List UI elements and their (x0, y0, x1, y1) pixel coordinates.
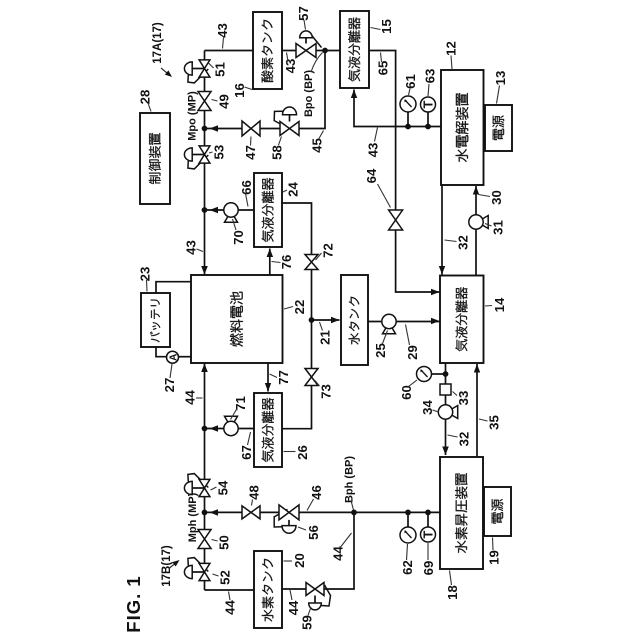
wire stem gauge 69 (427, 512, 429, 527)
arrow up at Mph junction (210, 509, 219, 516)
svg-text:A: A (168, 354, 179, 361)
pressure gauge 61 (400, 96, 416, 112)
svg-text:16: 16 (232, 83, 247, 98)
junction node pump70 line (202, 207, 208, 213)
wire battery negative to ammeter (156, 347, 167, 357)
svg-text:67: 67 (239, 445, 254, 460)
svg-text:76: 76 (279, 255, 294, 270)
wire line 76 fuel cell to separator 24 (269, 249, 271, 275)
pressure gauge 60 (417, 367, 432, 382)
svg-text:46: 46 (309, 485, 324, 500)
wire line 32 electrolyzer 12 to separator 14 (441, 185, 443, 275)
wire stem gauge 62 (407, 512, 409, 527)
water tank box (341, 275, 368, 365)
svg-text:Mpo (MP): Mpo (MP) (187, 91, 199, 141)
oxygen tank box 16 (253, 12, 282, 89)
wire line 44 hydrogen tank 20 bottom via valve 59 (283, 512, 355, 589)
temperature gauge 63 (421, 97, 436, 112)
wire battery positive to fuel cell (156, 282, 191, 293)
svg-text:14: 14 (492, 297, 507, 312)
svg-text:Mph (MP): Mph (MP) (187, 492, 199, 542)
wire line 29 water tank to separator 14 via pump 25 (369, 321, 440, 323)
svg-text:53: 53 (211, 145, 226, 160)
svg-text:22: 22 (292, 300, 307, 315)
wire line 43 electrolyzer 12 to separator 15 (354, 90, 441, 127)
valve 48 (242, 506, 260, 519)
junction node water line (309, 317, 315, 323)
valve 64 (389, 210, 403, 230)
pressure gauge 62 (400, 527, 416, 543)
wire line 46 Mph branch to booster 18 (205, 511, 440, 513)
svg-text:Bph (BP): Bph (BP) (344, 456, 356, 503)
junction node Mpo (202, 126, 208, 132)
arrow up at pump71 junction (210, 425, 219, 432)
pump 25 (383, 328, 396, 334)
valve 58 with actuator (274, 111, 287, 128)
arrow line 32 into separator 14 (439, 266, 445, 275)
arrow hydrogen into fuel cell left side (201, 364, 208, 373)
junction node gauge 60 tap (443, 371, 449, 377)
wire stem gauge 60 (432, 373, 446, 375)
svg-text:T: T (421, 100, 436, 108)
valve 49 (198, 92, 211, 111)
svg-text:70: 70 (231, 230, 246, 245)
wire line 66 separator 24 to rail via pump 70 (205, 209, 254, 211)
svg-text:17A(17): 17A(17) (152, 22, 164, 64)
wire stem gauge 63 (427, 112, 429, 127)
svg-text:30: 30 (489, 190, 504, 205)
wire ammeter to fuel cell (178, 356, 190, 358)
wire line 35 booster 18 to separator 14 (476, 364, 478, 457)
svg-text:71: 71 (233, 396, 248, 411)
valve 54 pilot (188, 474, 208, 488)
svg-text:27: 27 (162, 378, 177, 393)
fuel cell box (191, 275, 283, 363)
wire line 32 separator 14 to booster 18 (445, 363, 447, 455)
arrow line 30 into electrolyzer 12 (473, 186, 479, 195)
svg-text:47: 47 (243, 145, 258, 160)
arrow line 21 into water tank (331, 317, 340, 323)
wire line 77 fuel cell to separator 26 (267, 364, 269, 392)
control device box 28 (140, 113, 170, 204)
valve 73 (305, 369, 318, 386)
arrow oxygen into fuel cell right side (201, 266, 208, 275)
filter 33 (440, 384, 451, 395)
svg-text:25: 25 (373, 343, 388, 358)
svg-text:62: 62 (400, 560, 415, 575)
wire line 45 Bpo branch (205, 51, 326, 129)
gas-liquid separator box 26 (254, 393, 282, 467)
junction node gauge 62 tap (405, 510, 411, 516)
battery box 23 (141, 293, 170, 347)
svg-text:28: 28 (137, 90, 152, 105)
wire stem gauge 61 (407, 112, 409, 127)
temperature gauge 69 (421, 527, 436, 542)
power supply box 19 (484, 487, 511, 536)
svg-text:44: 44 (182, 390, 197, 405)
svg-text:43: 43 (365, 143, 380, 158)
junction node Mph (202, 510, 208, 516)
power supply box 13 (485, 105, 512, 151)
svg-text:43: 43 (183, 240, 198, 255)
svg-text:26: 26 (295, 445, 310, 460)
arrow line 76 into separator 24 (267, 249, 274, 258)
pump 71 (225, 416, 238, 422)
svg-text:45: 45 (309, 138, 324, 153)
wire water line separator 24 to separator 26 via valves 72 73 (283, 203, 312, 429)
wire rail down to oxygen tank 16 (205, 50, 253, 52)
wire oxygen rail fuel cell to oxygen tank corner (204, 51, 206, 275)
svg-text:15: 15 (379, 19, 394, 34)
svg-text:31: 31 (490, 220, 505, 235)
svg-text:13: 13 (493, 71, 508, 86)
svg-text:18: 18 (445, 585, 460, 600)
svg-text:12: 12 (443, 41, 458, 56)
gas-liquid separator box 14 (440, 276, 484, 364)
arrow line 35 into separator 14 (474, 364, 480, 373)
wire line 67 separator 26 to rail via pump 71 (205, 428, 254, 430)
wire rail down to hydrogen tank 20 (205, 589, 254, 591)
pump 70 (225, 216, 238, 222)
arrow up at Mpo junction (210, 125, 219, 132)
arrow line 65 into separator 14 (431, 289, 440, 295)
svg-text:65: 65 (375, 61, 390, 76)
wire oxygen tank 16 to separator 15 via valve 57 (283, 50, 340, 52)
junction node gauge 61 tap (405, 124, 411, 130)
valve 56 with actuator (274, 509, 287, 527)
wire line 30 separator 14 to electrolyzer 12 via pump 31 (475, 186, 477, 276)
junction node pump71 line (202, 426, 208, 432)
svg-text:44: 44 (222, 600, 237, 615)
svg-text:72: 72 (320, 243, 335, 258)
svg-text:29: 29 (405, 345, 420, 360)
junction node Bph (351, 510, 357, 516)
valve 52 pilot (188, 558, 208, 572)
wire line 65 separator 15 drain via valve 64 to separator 14 (369, 51, 440, 293)
hydrogen booster box 18 (440, 457, 483, 569)
hydrogen tank box 20 (254, 551, 282, 628)
svg-text:66: 66 (239, 180, 254, 195)
wire hydrogen rail Mph to fuel cell (204, 364, 206, 591)
svg-text:48: 48 (246, 485, 261, 500)
svg-text:T: T (421, 530, 436, 538)
svg-text:33: 33 (456, 391, 471, 406)
svg-text:44: 44 (330, 546, 345, 561)
valve 53 pilot (188, 155, 208, 169)
svg-text:35: 35 (486, 415, 501, 430)
arrow up at pump70 junction (210, 207, 219, 213)
svg-text:50: 50 (216, 535, 231, 550)
valve 57 with actuator (311, 34, 322, 48)
svg-text:69: 69 (421, 561, 436, 576)
svg-text:61: 61 (403, 74, 418, 89)
pump 31 (482, 216, 488, 229)
arrow line 77 into separator 26 (265, 383, 271, 392)
valve 47 (242, 121, 260, 136)
valve 50 (198, 530, 211, 549)
svg-text:23: 23 (137, 267, 152, 282)
junction node Bpo (322, 48, 328, 54)
valve 51 pilot (188, 69, 208, 83)
svg-text:19: 19 (486, 550, 501, 565)
ammeter 27 (167, 351, 179, 363)
svg-text:58: 58 (269, 145, 284, 160)
svg-text:43: 43 (215, 23, 230, 38)
svg-text:51: 51 (212, 62, 227, 77)
gas-liquid separator box 24 (254, 173, 282, 247)
gas-liquid separator box 15 (340, 11, 369, 88)
junction node gauge 69 tap (425, 510, 431, 516)
svg-text:21: 21 (317, 330, 332, 345)
svg-text:32: 32 (456, 432, 471, 447)
svg-text:64: 64 (364, 168, 379, 183)
svg-text:54: 54 (215, 480, 230, 495)
svg-text:32: 32 (455, 235, 470, 250)
svg-text:59: 59 (299, 615, 314, 630)
valve 59 with actuator (321, 585, 331, 606)
junction node gauge 63 tap (425, 124, 431, 130)
svg-text:57: 57 (296, 6, 311, 21)
arrow line 43 into separator 15 (351, 90, 357, 99)
arrow line 29 into separator 14 (431, 318, 440, 324)
svg-text:Bpo (BP): Bpo (BP) (303, 70, 315, 117)
svg-text:56: 56 (306, 525, 321, 540)
svg-text:34: 34 (420, 400, 435, 415)
svg-text:FIG. 1: FIG. 1 (123, 575, 144, 632)
svg-text:60: 60 (399, 385, 414, 400)
pump 34 (452, 406, 458, 419)
svg-text:20: 20 (292, 553, 307, 568)
svg-text:73: 73 (318, 384, 333, 399)
svg-text:43: 43 (283, 59, 298, 74)
svg-text:44: 44 (286, 600, 301, 615)
water electrolyzer box 12 (441, 70, 484, 185)
svg-text:63: 63 (422, 69, 437, 84)
svg-text:77: 77 (276, 370, 291, 385)
valve 72 (305, 255, 318, 270)
svg-text:24: 24 (285, 182, 300, 197)
svg-text:52: 52 (217, 570, 232, 585)
wire line 21 into water tank (312, 319, 340, 321)
arrow line 32 into booster 18 (442, 447, 449, 456)
svg-text:49: 49 (216, 94, 231, 109)
